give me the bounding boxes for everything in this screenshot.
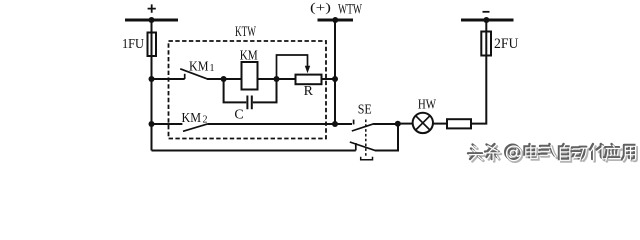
wire rheostat tap loop with arrow xyxy=(277,55,311,79)
wire KM2 row left xyxy=(152,123,183,125)
svg-text:WTW: WTW xyxy=(338,2,362,18)
resistor (lamp ballast) xyxy=(447,119,471,128)
svg-text:2FU: 2FU xyxy=(494,36,519,52)
node D (coil right / tap / cap right) xyxy=(274,76,280,82)
terminal + (left positive supply) xyxy=(125,4,178,20)
linkage SE (dashed mechanical link with actuator) xyxy=(361,120,373,160)
svg-text:(+): (+) xyxy=(310,0,331,14)
node G (WTW vertical / KM2 row) xyxy=(332,121,338,127)
wire R to WTW rail xyxy=(322,78,336,80)
svg-text:HW: HW xyxy=(418,97,436,112)
svg-text:KM: KM xyxy=(189,58,209,73)
switch SE upper contact xyxy=(352,101,374,131)
svg-text:C: C xyxy=(234,108,243,123)
node WTW bus junction xyxy=(332,17,338,23)
wire left rail vertical xyxy=(151,20,153,151)
svg-text:1: 1 xyxy=(210,63,215,74)
svg-text:R: R xyxy=(304,84,314,99)
switch SE lower contact xyxy=(350,142,375,151)
contact KM2 xyxy=(182,110,209,132)
node E (WTW vertical / R row) xyxy=(332,76,338,82)
wire KM1 row left xyxy=(152,78,185,80)
node B (coil left / capacitor tap) xyxy=(221,76,227,82)
wire node to lamp xyxy=(398,123,413,125)
wire WTW vertical xyxy=(334,20,336,124)
wire SE lower to riser xyxy=(375,124,398,151)
node H (SE out / lamp branch) xyxy=(395,121,401,127)
wire bottom rail xyxy=(152,150,356,152)
node F (left rail / KM2 row) xyxy=(149,121,155,127)
fuse 1FU xyxy=(122,33,156,57)
wire KM2 row to SE xyxy=(335,123,352,125)
wire SE upper to lamp node xyxy=(374,123,398,125)
wire KM1 to coil xyxy=(207,78,242,80)
fuse 2FU xyxy=(481,32,518,56)
wire resistor to right rail xyxy=(471,20,486,124)
svg-text:KM: KM xyxy=(182,110,202,125)
terminal (+) WTW (top middle) xyxy=(310,0,362,20)
resistor R (rheostat) xyxy=(296,75,322,100)
svg-text:2: 2 xyxy=(203,114,208,125)
coil KM (relay coil) xyxy=(240,49,258,90)
contact KM1 (normally open) xyxy=(180,58,214,79)
wire KM2 row to WTW rail xyxy=(208,123,335,125)
capacitor C (parallel with coil) xyxy=(224,79,277,123)
svg-text:KTW: KTW xyxy=(235,24,256,40)
node left-bus junction xyxy=(149,17,155,23)
wire coil to R xyxy=(258,78,296,80)
svg-text:1FU: 1FU xyxy=(122,37,144,52)
relay box KTW (dashed enclosure) xyxy=(169,24,327,139)
lamp HW (indicator lamp) xyxy=(413,97,437,134)
node right-bus junction xyxy=(483,17,489,23)
node A (left rail / KM1 row) xyxy=(149,76,155,82)
wire lamp to resistor xyxy=(433,123,447,125)
svg-text:SE: SE xyxy=(358,101,372,116)
terminal - (right negative supply) xyxy=(461,12,514,20)
svg-text:KM: KM xyxy=(240,49,258,64)
